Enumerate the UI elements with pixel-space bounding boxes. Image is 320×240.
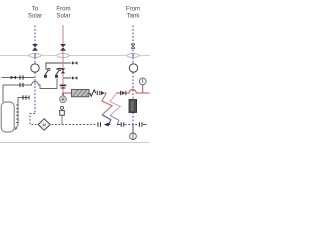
wire bottom dashed run left [52, 124, 98, 126]
wire bottom dashed mid [125, 124, 139, 126]
check valve C1 on red riser [61, 68, 65, 73]
wire cold feed top line [2, 77, 35, 79]
tank T1 [1, 102, 14, 132]
wire from-solar red riser [62, 25, 64, 93]
wire to-solar dashed riser upper [34, 26, 36, 114]
relief valve RV1 [60, 106, 65, 124]
union U3 on fill line [20, 83, 23, 87]
branch lower purge from red line [57, 69, 72, 79]
union U2 on cold feed [20, 75, 23, 79]
wire fill line with hump [3, 79, 57, 89]
pump P2 from-tank [129, 64, 137, 72]
label To Solar [28, 6, 42, 20]
svg-text:Solar: Solar [56, 13, 70, 20]
union U4 on tank top pipe [23, 95, 26, 99]
union U1 on red riser [60, 85, 66, 88]
wire tank cold drop [2, 85, 4, 102]
heat exchanger HX1 [72, 89, 90, 96]
motorized valve M1 diamond [38, 119, 50, 131]
svg-text:Solar: Solar [28, 13, 42, 20]
wire from-tank dashed riser [132, 26, 134, 125]
crossover ellipse C [127, 54, 139, 58]
valve V1 on to-solar line [32, 44, 38, 51]
drain valve D1 [44, 68, 50, 78]
pump P1 to-solar [31, 64, 39, 72]
valve V2 on from-solar line [60, 44, 66, 51]
gauge G1 below red tee [60, 93, 67, 103]
crossover ellipse B [57, 54, 69, 58]
wire bottom dashed right end [143, 124, 147, 126]
wire bottom solid joiner [109, 124, 111, 126]
tank port marks [16, 105, 18, 124]
flex zigzag right upper pink [110, 93, 120, 115]
flex zigzag right lower purple [110, 115, 119, 124]
label From Tank [126, 6, 140, 20]
flow arrow A1 right [101, 91, 105, 95]
valve B1 bowtie right upper [72, 61, 77, 65]
valve B3 bowtie cold feed [11, 76, 16, 80]
branch upper purge from red line [46, 63, 72, 70]
svg-text:To: To [32, 6, 39, 13]
wire red horizontal main [63, 89, 150, 93]
wire dashed through ellipse C [132, 53, 134, 57]
svg-text:Tank: Tank [127, 13, 141, 20]
union U5 on red line [97, 91, 100, 95]
cap end tank top pipe [28, 96, 30, 100]
union U8 on bottom run right [139, 122, 142, 126]
wire dashed through ellipse A [34, 53, 36, 57]
svg-text:From: From [126, 6, 140, 13]
wire ceiling line [0, 55, 150, 57]
label From Solar [56, 6, 70, 20]
check valve C2 on red line [121, 91, 126, 95]
flex zigzag left upper red [102, 93, 112, 115]
drain valve D2 [55, 68, 61, 78]
wire to-solar dashed jog [30, 114, 37, 125]
svg-text:From: From [56, 6, 70, 13]
flow arrow A2 left [104, 123, 109, 127]
union U7 on bottom run [121, 122, 124, 126]
valve V3 on from-tank line [131, 44, 135, 49]
arrowhead tank drain [15, 127, 18, 130]
flex connector F1 [90, 90, 96, 96]
wire tank side pipe [15, 98, 29, 130]
flex zigzag left lower blue [102, 115, 111, 125]
wire floor line [0, 142, 150, 144]
crossover ellipse A [29, 54, 41, 58]
svg-text:M: M [42, 123, 46, 128]
actuator block on from-tank line [129, 100, 137, 113]
gauge G2 on red line right [139, 78, 146, 93]
union U6 on bottom run [98, 122, 101, 126]
wire red through ellipse B [62, 53, 64, 57]
valve B2 bowtie right lower [72, 76, 77, 80]
thermometer TW1 bottom [130, 125, 137, 140]
